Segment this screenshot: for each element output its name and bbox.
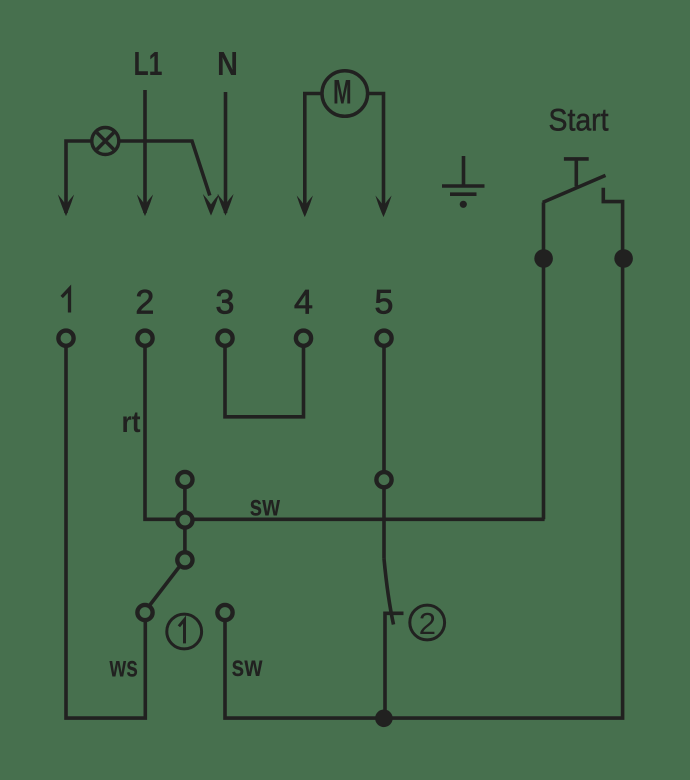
svg-text:L1: L1 [134,45,163,82]
svg-text:M: M [333,74,352,112]
svg-text:5: 5 [375,284,394,322]
svg-text:Start: Start [549,102,609,138]
svg-text:rt: rt [122,406,141,439]
svg-text:4: 4 [294,284,313,322]
svg-text:ws: ws [109,651,138,684]
svg-text:sw: sw [250,489,281,522]
svg-text:2: 2 [135,284,154,322]
svg-text:sw: sw [231,650,263,683]
svg-text:N: N [217,45,238,82]
svg-text:2: 2 [419,606,436,641]
svg-text:3: 3 [216,284,235,322]
